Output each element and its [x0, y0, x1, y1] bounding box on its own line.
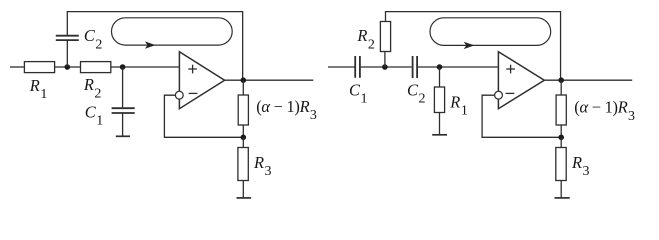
wire: C2 up, top feedback run, down to output node	[67, 12, 242, 81]
capacitor C1	[112, 108, 135, 113]
wire: output node down to (alpha-1)R3	[242, 80, 244, 95]
wire: C1 to ground	[122, 113, 124, 136]
svg-text:C1: C1	[85, 103, 103, 129]
node: junction of R1, R2, C2	[65, 64, 71, 70]
ground (below R3, left)	[237, 197, 252, 199]
wire: node up to C2	[66, 40, 68, 67]
wire: R3 to ground (right)	[560, 181, 562, 198]
capacitor C2	[56, 36, 79, 40]
svg-text:R1: R1	[449, 92, 468, 118]
pin +: non-inverting input mark	[188, 65, 197, 74]
svg-text:C1: C1	[349, 81, 367, 107]
wire: R1 to R2 through node	[55, 66, 81, 68]
pin +: non-inverting input mark (right)	[506, 65, 515, 74]
svg-text:R2: R2	[83, 75, 102, 101]
wire: C1 to C2 through node	[361, 66, 412, 68]
capacitor C2 (right, series)	[413, 56, 418, 78]
svg-text:C2: C2	[407, 81, 425, 107]
node: junction of R2, C1, op-amp	[120, 64, 126, 70]
ground (below R3, right)	[555, 197, 570, 199]
svg-text:R1: R1	[29, 76, 48, 102]
op-amp U2 (right)	[498, 52, 544, 109]
pin -: inverting input mark (right)	[506, 92, 515, 94]
resistor (alpha-1)R3 (right)	[556, 95, 566, 125]
loop arrow (feedback direction indicator, right)	[430, 18, 551, 49]
svg-text:(α − 1)R3: (α − 1)R3	[256, 97, 317, 123]
svg-text:R3: R3	[253, 153, 272, 179]
resistor R1	[24, 62, 54, 73]
wire: feedback from bubble down to R3 junction	[164, 95, 243, 137]
wire: output node down to (alpha-1)R3 (right)	[560, 80, 562, 95]
op-amp U1 (left)	[179, 52, 224, 109]
wire: op-amp output to the right	[225, 79, 314, 81]
loop arrow (feedback direction indicator, left)	[112, 18, 233, 49]
resistor R1 (right)	[434, 87, 444, 113]
pin -: inverting input mark	[189, 92, 198, 94]
svg-text:R3: R3	[571, 153, 590, 179]
svg-text:R2: R2	[356, 26, 375, 52]
capacitor C1 (right, series)	[355, 56, 360, 78]
resistor R2	[81, 62, 111, 73]
wire: node down to C1	[122, 67, 124, 108]
wire: C2 to op-amp + input through node	[418, 66, 499, 68]
ground (below C1)	[116, 135, 130, 137]
node: junction of (alpha-1)R3, R3, feedback (right)	[558, 135, 564, 141]
node: output node (right)	[558, 77, 564, 83]
ground (below R1, right)	[432, 134, 447, 136]
wire: (alpha-1)R3 to junction	[242, 125, 244, 137]
wire: feedback from bubble down to R3 junction (right)	[482, 95, 561, 137]
wire: R3 to ground	[242, 181, 244, 198]
svg-text:C2: C2	[84, 26, 102, 52]
resistor R2 (right)	[380, 22, 390, 52]
svg-text:(α − 1)R3: (α − 1)R3	[574, 98, 635, 124]
wire: node down to R1	[439, 67, 441, 87]
wire: R1 to ground	[439, 113, 441, 135]
wire: junction to R3	[242, 137, 244, 147]
resistor (alpha-1)R3 (left)	[238, 95, 248, 125]
wire: junction to R3 (right)	[560, 137, 562, 147]
wire: node up to R2	[384, 52, 386, 68]
wire: R2 to op-amp + input through node	[111, 66, 180, 68]
wire: R2 up, top feedback run, down to output node (right)	[386, 12, 561, 81]
node: junction of (alpha-1)R3, R3, feedback	[241, 135, 247, 141]
bubble at inverting input (right)	[495, 91, 503, 99]
wire: (alpha-1)R3 to junction (right)	[560, 125, 562, 137]
wire: right circuit input	[328, 66, 355, 68]
resistor R3 (left)	[238, 148, 248, 181]
node: junction of C2, R1, op-amp (right)	[437, 64, 443, 70]
wire: left input	[10, 66, 24, 68]
bubble at inverting input	[175, 91, 183, 99]
node: output node (left)	[241, 77, 247, 83]
node: junction of C1, C2, R2 (right)	[382, 64, 388, 70]
wire: op-amp output to the right (right)	[544, 79, 632, 81]
resistor R3 (right)	[556, 148, 566, 181]
